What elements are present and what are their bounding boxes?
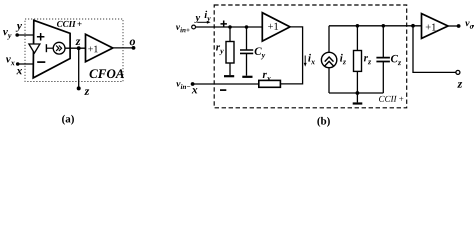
voltage buffer triangle <box>29 44 40 53</box>
buffer +1 triangle <box>86 34 113 62</box>
minus mark x <box>220 89 226 91</box>
terminal z open circle <box>456 70 460 74</box>
wire r_y branch <box>229 27 231 42</box>
node ground junction <box>356 91 360 95</box>
mirror chevrons <box>56 46 62 51</box>
label C_z <box>391 55 401 65</box>
wire C_z top <box>382 26 384 58</box>
label i_z <box>340 54 346 64</box>
label x <box>192 88 198 93</box>
current source i_z circle <box>321 52 336 67</box>
wire tick to mirror <box>46 47 53 49</box>
node z dot <box>77 46 81 50</box>
dashed box CFOA <box>25 19 123 82</box>
label x <box>16 69 22 74</box>
label v_y <box>3 30 11 40</box>
label v_in+ <box>176 25 190 32</box>
node z out junction <box>411 24 415 28</box>
wire C_y to ground <box>246 53 248 75</box>
current mirror tick <box>45 44 47 52</box>
terminal z dot <box>77 86 81 90</box>
wire output o <box>113 47 134 49</box>
label r_x <box>263 73 271 81</box>
wire C_z bottom <box>382 62 384 94</box>
wire C_y branch <box>246 27 248 50</box>
wire buffer to r_x <box>280 27 302 84</box>
wire r_y to ground <box>229 63 231 75</box>
terminal y dot <box>15 33 19 37</box>
edge stub <box>472 25 474 27</box>
wire y input <box>196 26 263 28</box>
output buffer +1 triangle <box>422 14 449 39</box>
resistor r_y <box>226 42 234 64</box>
wire source bottom <box>328 68 330 93</box>
label z terminal <box>84 89 89 95</box>
label C_y <box>255 47 266 59</box>
current mirror circle <box>53 42 65 54</box>
label +1 <box>426 24 436 31</box>
label o <box>130 40 135 46</box>
arrow i_x <box>304 56 306 64</box>
terminal x dot <box>16 62 20 66</box>
input buffer +1 triangle <box>262 13 290 41</box>
label z internal <box>75 39 80 45</box>
wire r_z bottom <box>356 71 358 93</box>
ground z net <box>356 93 358 102</box>
caption (b) <box>317 117 329 127</box>
label r_z <box>364 56 371 64</box>
label y <box>194 16 200 23</box>
label CCII+ model <box>379 96 403 102</box>
terminal v_o dot <box>457 24 461 28</box>
ground r_y <box>224 75 234 77</box>
dashed box CCII+ model <box>214 5 407 108</box>
CCII+ trapezoid body <box>33 20 70 78</box>
label v_x <box>6 57 15 65</box>
wire z down <box>78 48 80 88</box>
label r_y <box>216 45 224 55</box>
current source chevrons <box>325 57 334 66</box>
ground C_y <box>242 76 252 78</box>
resistor r_x <box>259 80 281 87</box>
label +1 <box>88 46 98 53</box>
node r_y junction <box>228 25 232 29</box>
label CFOA <box>90 69 124 78</box>
label z output <box>457 82 462 88</box>
label CCII+ <box>57 21 82 27</box>
resistor r_z <box>354 51 362 72</box>
capacitor C_y <box>240 50 253 53</box>
plus mark y input <box>37 33 45 41</box>
label +1 <box>268 23 278 30</box>
label v_in- <box>176 82 190 89</box>
wire bottom rail <box>329 92 383 94</box>
wire z output <box>413 26 456 73</box>
wire y input <box>17 34 34 36</box>
terminal x dot <box>191 82 195 86</box>
caption (a) <box>62 115 74 125</box>
label i_x <box>308 54 315 64</box>
node r_z junction <box>356 24 360 28</box>
wire x input <box>193 83 259 85</box>
wire z rail <box>329 25 422 27</box>
wire source top <box>328 26 330 53</box>
plus mark y <box>221 21 227 28</box>
terminal y open circle <box>192 25 196 29</box>
node C_z junction <box>382 24 386 28</box>
terminal o dot <box>132 46 136 50</box>
wire r_z top <box>356 26 358 51</box>
wire x input <box>18 63 34 65</box>
node C_y junction <box>245 25 249 29</box>
arrow i_y <box>197 21 207 23</box>
label v_o <box>465 21 473 28</box>
label i_y <box>205 11 211 23</box>
label y <box>16 24 22 32</box>
capacitor C_z <box>376 58 390 62</box>
minus mark x input <box>37 61 45 63</box>
wire mirror to buffer <box>65 47 86 49</box>
wire v_o <box>448 25 459 27</box>
